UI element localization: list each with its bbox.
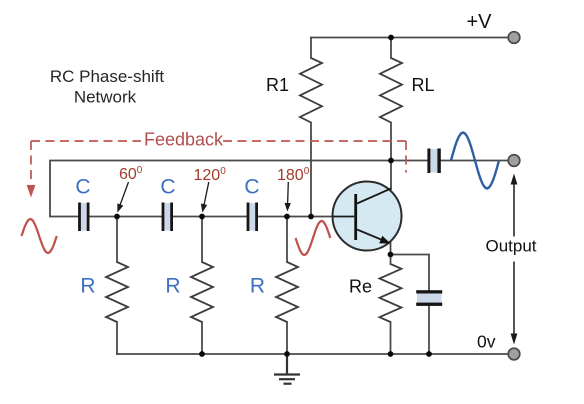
wire node 60 down to R — [116, 217, 118, 263]
wire 0v rail — [117, 353, 508, 355]
svg-text:+V: +V — [467, 11, 493, 33]
svg-text:R: R — [80, 275, 95, 298]
output sine wave (blue) — [451, 133, 499, 189]
capacitor C3 — [247, 203, 258, 232]
svg-text:Feedback: Feedback — [144, 130, 224, 150]
resistor R (120 deg leg) — [191, 262, 213, 322]
output measurement arrow — [511, 174, 518, 345]
wire R1net bottom to 0v rail — [116, 322, 118, 354]
wire +V supply rail — [311, 37, 508, 39]
svg-text:C: C — [75, 176, 90, 199]
base sine wave (red, inverted) — [296, 221, 331, 255]
node 60 deg — [114, 214, 120, 220]
svg-text:R: R — [165, 275, 180, 298]
wire R1 bottom to base node — [310, 123, 312, 217]
input sine wave (red, left) — [22, 219, 57, 253]
wire emitter node to Re — [390, 255, 392, 265]
wire R2net bottom to 0v rail — [201, 322, 203, 354]
resistor R (60 deg leg) — [106, 262, 128, 322]
wire RL bottom to collector node — [390, 123, 392, 161]
ground — [274, 354, 300, 384]
capacitor C2 — [162, 203, 173, 232]
svg-text:C: C — [244, 176, 259, 199]
wire Re bottom to 0v rail — [390, 322, 392, 354]
terminal output — [508, 155, 520, 167]
wire R1 top stub — [310, 38, 312, 59]
svg-text:Re: Re — [349, 277, 372, 297]
wire collector up — [390, 161, 392, 190]
annotation arrow 60 deg — [117, 182, 128, 213]
wire bypass cap to 0v rail — [428, 306, 430, 354]
wire C2 to node 120 — [173, 216, 246, 218]
svg-text:C: C — [160, 176, 175, 199]
feedback arrowhead — [27, 185, 36, 198]
node junction top rail RL — [388, 35, 394, 41]
wire feedback dashed path — [31, 141, 406, 184]
node rail Re — [388, 351, 394, 357]
wire feedback/output line top — [50, 161, 427, 217]
transistor Q1 — [333, 182, 402, 251]
annotation arrow 120 deg — [201, 182, 209, 213]
wire C1 to node 60 — [89, 216, 161, 218]
wire R3net bottom to 0v rail — [286, 322, 288, 354]
svg-text:Output: Output — [485, 237, 536, 256]
resistor Re — [380, 264, 402, 322]
node collector/output — [388, 158, 394, 164]
node rail 120 leg — [199, 351, 205, 357]
svg-text:R: R — [250, 275, 265, 298]
capacitor C5 emitter bypass — [416, 290, 442, 306]
node 180 deg — [284, 214, 290, 220]
annotation arrow 180 deg — [285, 182, 291, 212]
wire node 180 down to R — [286, 217, 288, 263]
node rail bypass cap — [426, 351, 432, 357]
node base junction R1 — [308, 214, 314, 220]
resistor R1 — [300, 58, 322, 123]
node emitter — [388, 252, 394, 258]
svg-text:Network: Network — [74, 88, 137, 107]
svg-text:RL: RL — [412, 75, 435, 95]
wire output line to terminal — [441, 160, 508, 162]
resistor RL — [380, 58, 402, 123]
resistor R (180 deg leg) — [276, 262, 298, 322]
capacitor C1 — [78, 203, 89, 232]
wire RL top stub — [390, 38, 392, 59]
wire emitter down to node — [390, 242, 392, 255]
node 120 deg — [199, 214, 205, 220]
wire C3 to transistor base — [258, 216, 333, 218]
terminal 0v — [508, 348, 520, 360]
wire node 120 down to R — [201, 217, 203, 263]
capacitor C4 output coupling — [427, 149, 440, 174]
svg-text:R1: R1 — [266, 75, 289, 95]
terminal +V — [508, 32, 520, 44]
svg-text:RC Phase-shift: RC Phase-shift — [50, 67, 165, 86]
svg-text:0v: 0v — [477, 332, 496, 352]
node rail ground — [284, 351, 290, 357]
wire emitter node to bypass cap — [391, 255, 430, 291]
